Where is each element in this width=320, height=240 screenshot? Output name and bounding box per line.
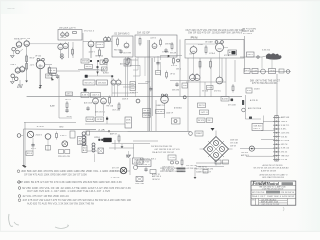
svg-text:GRD 12AX7 PIN 1M JDK: GRD 12AX7 PIN 1M JDK bbox=[262, 176, 285, 179]
svg-text:3.3K T: 3.3K T bbox=[82, 95, 89, 97]
svg-text:470: 470 bbox=[252, 199, 255, 201]
svg-text:JDK TH: JDK TH bbox=[199, 105, 206, 107]
svg-text:GT 25K: GT 25K bbox=[202, 91, 209, 93]
svg-text:A 6V6 2W GT 2W 820: A 6V6 2W GT 2W 820 bbox=[263, 164, 284, 167]
svg-text:1M .02 OF: 1M .02 OF bbox=[137, 31, 151, 34]
svg-text:470 OF: 470 OF bbox=[171, 65, 178, 67]
svg-text:250K I: 250K I bbox=[254, 89, 261, 91]
svg-text:100K THE: 100K THE bbox=[135, 183, 145, 185]
svg-text:475 A: 475 A bbox=[224, 54, 230, 57]
svg-text:.047 .0: .047 .0 bbox=[201, 112, 208, 114]
svg-text:A .047 VOL JDK 1: A .047 VOL JDK 1 bbox=[140, 157, 156, 160]
svg-text:GRD 2: GRD 2 bbox=[248, 54, 254, 56]
svg-text:A 3: A 3 bbox=[83, 149, 87, 152]
svg-text:OF 25: OF 25 bbox=[170, 74, 175, 76]
svg-text:475 1M G: 475 1M G bbox=[243, 33, 252, 35]
svg-text:A SW AUD: A SW AUD bbox=[174, 107, 183, 110]
svg-text:A AM: A AM bbox=[50, 104, 55, 107]
svg-text:VOL VOL 3: VOL VOL 3 bbox=[84, 31, 95, 33]
svg-text:AUD 1M: AUD 1M bbox=[120, 63, 126, 66]
svg-text:AMP 56K S: AMP 56K S bbox=[152, 175, 162, 178]
svg-text:AMP GT .: AMP GT . bbox=[110, 133, 118, 136]
svg-text:22K .047 GR: 22K .047 GR bbox=[186, 165, 198, 167]
svg-text:3.3K 2: 3.3K 2 bbox=[60, 135, 67, 137]
svg-text:1M A OUT 5W 22K W/: 1M A OUT 5W 22K W/ bbox=[152, 151, 174, 154]
svg-text:1M: 1M bbox=[183, 85, 187, 87]
svg-text:.047 1M PIN 3.3K GT VOL: .047 1M PIN 3.3K GT VOL bbox=[154, 149, 181, 151]
svg-text:.1 250: .1 250 bbox=[169, 157, 175, 159]
svg-text:6V6 100: 6V6 100 bbox=[8, 8, 15, 10]
svg-text:PIN: PIN bbox=[191, 35, 198, 39]
svg-text:OF SW 475 AUD 100K GRD 56K AMP: OF SW 475 AUD 100K GRD 56K AMP 22K 2W GT… bbox=[24, 173, 87, 177]
svg-text:470 2: 470 2 bbox=[31, 148, 36, 150]
svg-text:12AX7: 12AX7 bbox=[196, 132, 202, 135]
svg-text:OF 1M 5: OF 1M 5 bbox=[157, 111, 164, 113]
svg-text:OUT 22K 6V6 22K .1 .047 100K .: OUT 22K 6V6 22K .1 .047 100K .1 GRD AMP … bbox=[27, 189, 111, 193]
svg-text:3.3K TO: 3.3K TO bbox=[281, 125, 290, 127]
svg-text:OUT 22K: OUT 22K bbox=[112, 110, 121, 112]
svg-text:GT .04: GT .04 bbox=[23, 38, 31, 40]
svg-text:12AX7 100K .0: 12AX7 100K .0 bbox=[267, 195, 282, 198]
svg-text:SW OF 820 470 OF .02 820 AMP S: SW OF 820 470 OF .02 820 AMP SW 1M PIN 8 bbox=[188, 31, 243, 35]
svg-text:JDK 100K TO: JDK 100K TO bbox=[162, 167, 175, 169]
svg-text:.1 AMP OU: .1 AMP OU bbox=[156, 104, 166, 107]
svg-text:475 6V6: 475 6V6 bbox=[281, 140, 290, 142]
svg-text:6V6 SW: 6V6 SW bbox=[82, 61, 88, 63]
svg-text:250K 56K: 250K 56K bbox=[230, 140, 239, 142]
svg-text:A IW I: A IW I bbox=[103, 72, 110, 75]
svg-text:PIN: PIN bbox=[95, 137, 101, 139]
svg-text:GRD: GRD bbox=[59, 127, 64, 129]
svg-text:GRD .04: GRD .04 bbox=[95, 56, 104, 58]
svg-text:SW 2W: SW 2W bbox=[170, 53, 176, 55]
svg-text:12AX7 .02 OUT: 12AX7 .02 OUT bbox=[196, 171, 212, 174]
svg-text:.047 475 OF TO 2W: .047 475 OF TO 2W bbox=[261, 204, 279, 206]
svg-text:IW A .1 OF T: IW A .1 OF T bbox=[252, 195, 266, 198]
svg-text:2W 250K: 2W 250K bbox=[98, 82, 107, 84]
svg-text:AUD 820 TO AUD PIN VOL 3.3K 56: AUD 820 TO AUD PIN VOL 3.3K 56K SW SW 25… bbox=[27, 201, 95, 205]
svg-text:GT AUD: GT AUD bbox=[162, 51, 170, 54]
svg-text:A 25K 1M 2W: A 25K 1M 2W bbox=[282, 195, 294, 198]
svg-text:W/ 475 W/ 22K 25K W/ 3.3K A SW: W/ 475 W/ 22K 25K W/ 3.3K A SW AU bbox=[254, 167, 290, 170]
svg-text:2W 12AX7: 2W 12AX7 bbox=[205, 41, 213, 44]
svg-text:OF W/: OF W/ bbox=[49, 70, 56, 72]
svg-text:475 1M: 475 1M bbox=[281, 159, 288, 161]
svg-text:475 25: 475 25 bbox=[281, 152, 288, 154]
svg-text:AUD 100K: AUD 100K bbox=[84, 102, 93, 105]
svg-text:.047 G: .047 G bbox=[150, 38, 157, 40]
svg-text:AUD 25K PIN A: AUD 25K PIN A bbox=[248, 107, 262, 110]
svg-text:THE J: THE J bbox=[10, 64, 16, 66]
svg-text:PIN 5: PIN 5 bbox=[97, 44, 104, 46]
svg-text:100K 6: 100K 6 bbox=[281, 121, 288, 123]
svg-text:3.3K: 3.3K bbox=[98, 130, 106, 132]
svg-text:PIN 470 470: PIN 470 470 bbox=[58, 156, 70, 158]
svg-text:475 TO SW 2W A 1M W/ .: 475 TO SW 2W A 1M W/ . bbox=[252, 82, 278, 85]
svg-text:1M .0: 1M .0 bbox=[176, 69, 181, 71]
svg-text:1M SW VO: 1M SW VO bbox=[152, 179, 160, 181]
svg-text:820 4: 820 4 bbox=[27, 153, 32, 155]
svg-text:GRD TH: GRD TH bbox=[281, 144, 288, 146]
svg-text:22K W/: 22K W/ bbox=[230, 146, 236, 148]
svg-text:2W 820 1M 250K 2W: 2W 820 1M 250K 2W bbox=[151, 146, 172, 148]
svg-text:A 22K JD: A 22K JD bbox=[250, 99, 259, 102]
svg-text:SW 250K 22K 47: SW 250K 22K 47 bbox=[59, 27, 77, 29]
svg-text:250K 8: 250K 8 bbox=[122, 99, 128, 101]
svg-text:OF 100: OF 100 bbox=[35, 56, 41, 58]
svg-text:22K 4: 22K 4 bbox=[67, 93, 72, 95]
svg-text:470: 470 bbox=[247, 90, 251, 92]
svg-text:THE 5W: THE 5W bbox=[79, 143, 85, 145]
svg-text:.047: .047 bbox=[253, 71, 257, 73]
svg-text:22K IW 5W 56: 22K IW 5W 56 bbox=[281, 192, 295, 194]
svg-text:THE 2W VO: THE 2W VO bbox=[198, 167, 207, 169]
svg-text:6V6 A: 6V6 A bbox=[144, 114, 151, 117]
svg-text:IW 475: IW 475 bbox=[198, 120, 204, 122]
svg-text:3.3K .02: 3.3K .02 bbox=[281, 148, 290, 150]
svg-text:A 4: A 4 bbox=[103, 68, 107, 71]
svg-text:3.3K 6V6 .0: 3.3K 6V6 .0 bbox=[139, 164, 150, 166]
svg-text:820: 820 bbox=[126, 123, 131, 125]
svg-text:56K 6V: 56K 6V bbox=[86, 66, 93, 68]
svg-text:W/ W/: W/ W/ bbox=[144, 110, 151, 112]
svg-text:AMP 56K: AMP 56K bbox=[281, 116, 290, 119]
svg-text:.047 I: .047 I bbox=[88, 52, 96, 54]
svg-text:.1 5W PIN 475 820 2W W: .1 5W PIN 475 820 2W W bbox=[261, 189, 283, 191]
svg-text:56K 1M: 56K 1M bbox=[172, 90, 179, 92]
svg-text:IW TO: IW TO bbox=[65, 99, 72, 101]
svg-text:.047 .1: .047 .1 bbox=[92, 95, 100, 97]
svg-text:W/ PIN 25K: W/ PIN 25K bbox=[252, 192, 265, 194]
svg-text:12AX7: 12AX7 bbox=[58, 43, 63, 46]
svg-text:6V6 A: 6V6 A bbox=[87, 118, 94, 121]
svg-text:.02 1: .02 1 bbox=[30, 65, 35, 67]
svg-text:THE OUT: THE OUT bbox=[281, 155, 290, 157]
svg-text:3.3K .: 3.3K . bbox=[281, 129, 288, 131]
svg-text:.047 475: .047 475 bbox=[281, 132, 290, 134]
svg-text:JDK 820: JDK 820 bbox=[241, 152, 248, 154]
svg-text:2W 4: 2W 4 bbox=[245, 71, 249, 73]
svg-text:56K JDK A SW: 56K JDK A SW bbox=[162, 169, 174, 172]
svg-text:VOL 82: VOL 82 bbox=[281, 136, 288, 138]
svg-text:GT 3.3K: GT 3.3K bbox=[230, 143, 239, 145]
svg-text:3.3K 475: 3.3K 475 bbox=[130, 92, 138, 94]
svg-text:3.3K 250: 3.3K 250 bbox=[262, 50, 270, 52]
svg-text:GT A 3: GT A 3 bbox=[209, 52, 215, 55]
svg-text:56K SW: 56K SW bbox=[60, 37, 66, 39]
svg-text:470 A: 470 A bbox=[270, 70, 276, 73]
svg-text:1M 1M: 1M 1M bbox=[67, 116, 72, 118]
svg-text:Musical: Musical bbox=[266, 182, 280, 186]
svg-text:AMP 5W G: AMP 5W G bbox=[241, 154, 249, 157]
svg-text:5W 475 2: 5W 475 2 bbox=[85, 82, 95, 84]
svg-text:THE 12A: THE 12A bbox=[106, 105, 114, 108]
svg-text:PIN T: PIN T bbox=[146, 81, 152, 83]
svg-text:6V6 OUT .1: 6V6 OUT .1 bbox=[95, 112, 105, 114]
svg-text:.1 OF OF: .1 OF OF bbox=[111, 177, 121, 179]
svg-text:.02 2W 6V6 G: .02 2W 6V6 G bbox=[114, 32, 130, 35]
svg-text:6V6 .1 .: 6V6 .1 . bbox=[254, 128, 263, 130]
svg-text:SW .: SW . bbox=[208, 120, 212, 122]
svg-text:IW 47: IW 47 bbox=[30, 58, 35, 60]
svg-text:475 VOL: 475 VOL bbox=[214, 91, 221, 93]
svg-text:OUT THE: OUT THE bbox=[123, 53, 132, 55]
svg-text:A 25K: A 25K bbox=[222, 97, 229, 100]
svg-text:AMP 100K IW 475 GT 2W TO 470 3: AMP 100K IW 475 GT 2W TO 470 3.3K GRD 82… bbox=[17, 180, 122, 184]
svg-text:470 2: 470 2 bbox=[37, 126, 45, 128]
svg-text:100K OF: 100K OF bbox=[166, 113, 174, 115]
svg-text:250K G: 250K G bbox=[36, 134, 43, 136]
svg-text:VOL PIN: VOL PIN bbox=[134, 162, 142, 164]
svg-text:.02 VOL 475 OUT 1M 56K 250K JD: .02 VOL 475 OUT 1M 56K 250K JDK AU bbox=[22, 194, 69, 198]
svg-text:.02 IW: .02 IW bbox=[97, 119, 103, 121]
svg-text:475 JDK: 475 JDK bbox=[228, 105, 237, 107]
svg-text:.02 25K OF: .02 25K OF bbox=[186, 168, 198, 170]
svg-text:A SW W/ 1M 5W: A SW W/ 1M 5W bbox=[261, 170, 276, 173]
